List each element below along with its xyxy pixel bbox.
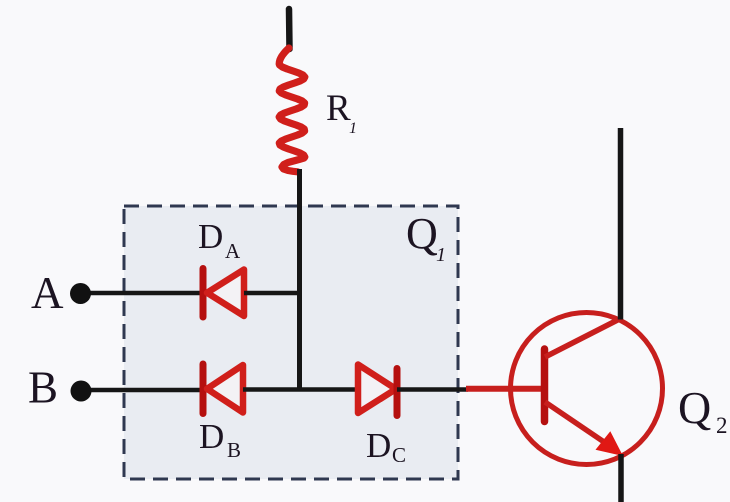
wire input B	[89, 388, 203, 393]
svg-text:A: A	[31, 268, 64, 318]
svg-text:D: D	[198, 217, 223, 256]
svg-text:D: D	[199, 417, 224, 456]
svg-text:Q: Q	[678, 382, 711, 433]
svg-text:2: 2	[716, 413, 728, 438]
wire DC to Q2 base (black segment)	[397, 387, 468, 392]
wire center node (R1 down into diode block)	[297, 169, 302, 391]
svg-text:C: C	[392, 443, 406, 467]
svg-text:A: A	[225, 239, 241, 263]
DTL diode block dashed box Q1	[124, 206, 458, 479]
svg-text:B: B	[227, 438, 241, 462]
svg-text:1: 1	[436, 244, 446, 266]
diode DA	[203, 269, 244, 318]
diode DC	[358, 365, 397, 416]
wire Q2 collector to top	[618, 128, 624, 320]
wire Q2 emitter to bottom	[618, 454, 624, 502]
diode DB	[203, 364, 243, 414]
svg-text:D: D	[366, 426, 391, 465]
node input A	[70, 283, 91, 304]
svg-text:Q: Q	[406, 209, 438, 258]
svg-text:R: R	[326, 88, 351, 129]
resistor R1	[279, 48, 305, 172]
wire input A	[88, 291, 203, 296]
svg-text:1: 1	[349, 120, 357, 137]
transistor Q2	[511, 313, 663, 465]
svg-text:B: B	[28, 363, 58, 413]
wire DB to DC through center junction	[243, 387, 358, 392]
wire DA to center node	[244, 291, 301, 296]
wire top supply to R1	[286, 9, 293, 49]
wire Q2 base (red segment)	[466, 386, 546, 392]
node input B	[71, 381, 92, 402]
